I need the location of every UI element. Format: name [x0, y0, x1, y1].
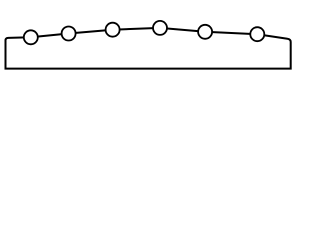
hole 3: [106, 23, 120, 37]
hole 1: [24, 30, 38, 44]
hole 2: [62, 27, 76, 41]
outline body with arched top wire: [6, 28, 291, 69]
hole 5: [198, 25, 212, 39]
hole 6: [250, 27, 264, 41]
hole 4: [153, 21, 167, 35]
gasket outline drawing: [0, 0, 300, 89]
